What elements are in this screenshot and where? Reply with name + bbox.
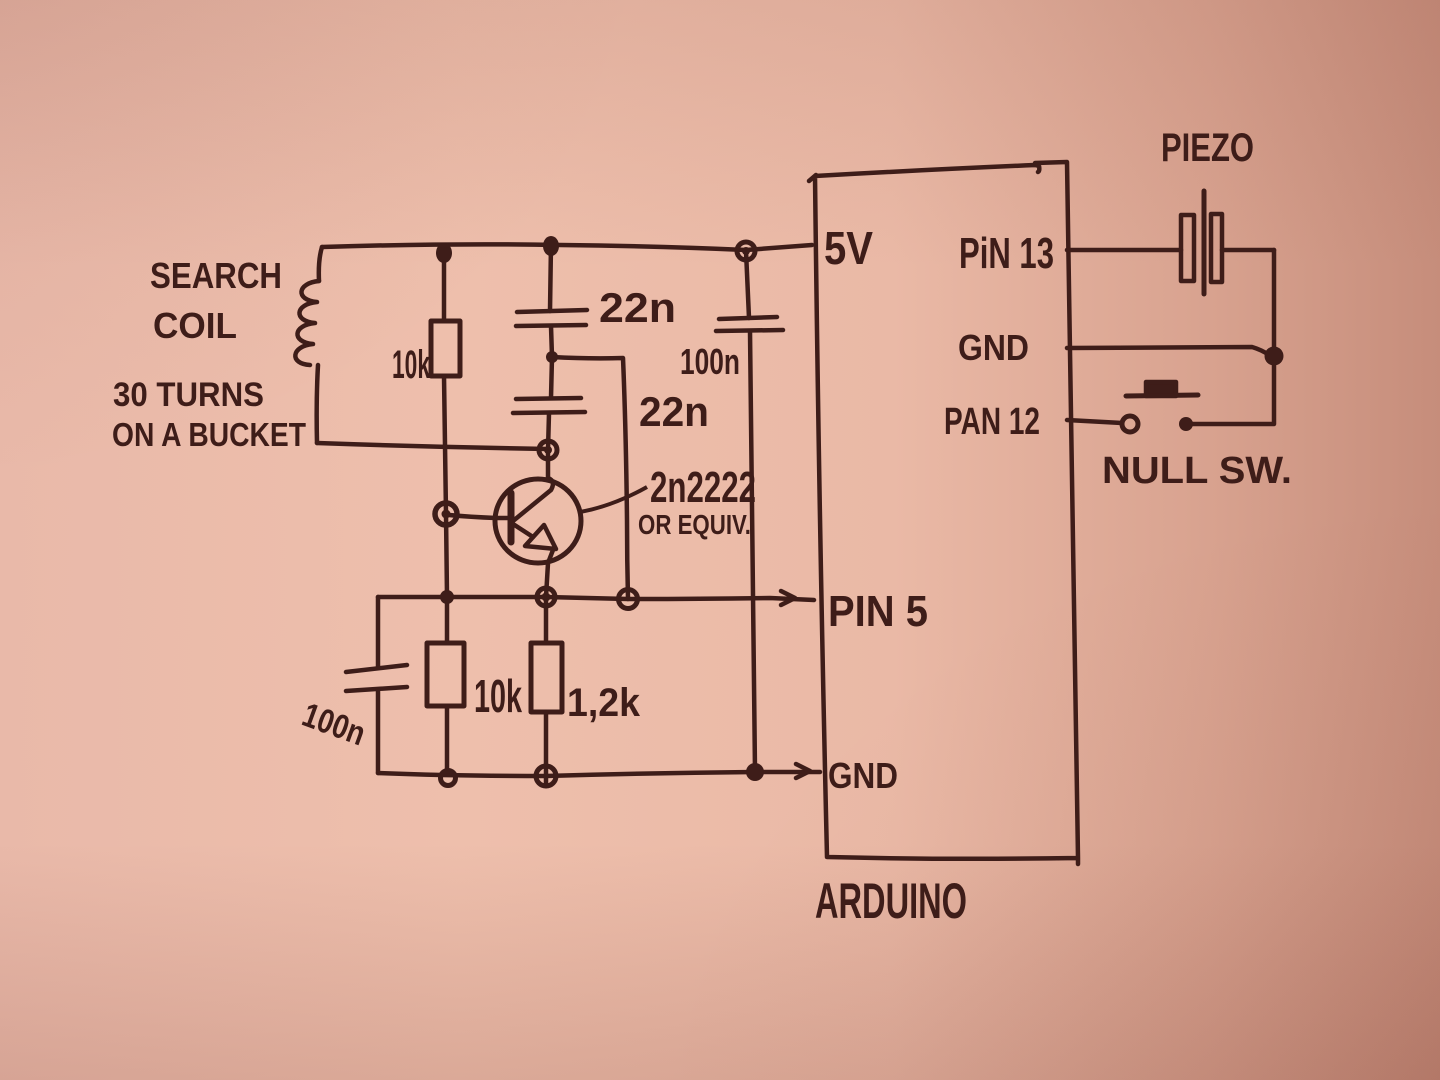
svg-text:22n: 22n xyxy=(639,388,709,435)
svg-text:100n: 100n xyxy=(680,341,740,382)
piezo center line xyxy=(1202,191,1207,294)
wire 5V rail to C3 xyxy=(746,251,749,318)
wire collector lead xyxy=(513,450,553,521)
arrowhead on gnd wire xyxy=(796,764,810,778)
wire bottom rail gnd xyxy=(378,772,820,776)
capacitor C1 22n xyxy=(516,310,587,326)
svg-text:30 TURNS: 30 TURNS xyxy=(113,376,264,414)
wire pan12 to switch xyxy=(1067,420,1122,423)
switch button xyxy=(1146,382,1176,396)
wire R3 to gnd rail xyxy=(544,712,549,786)
node pin5-R2 xyxy=(440,590,454,604)
wire piezo right lead xyxy=(1222,248,1274,253)
wire emitter lead down xyxy=(546,550,553,597)
node 5V-C1 xyxy=(543,236,559,256)
node R3-gnd circled xyxy=(536,766,556,786)
svg-text:NULL SW.: NULL SW. xyxy=(1102,450,1292,492)
resistor R3 1,2k xyxy=(531,643,562,712)
svg-text:PAN 12: PAN 12 xyxy=(944,401,1040,443)
svg-text:ON A BUCKET: ON A BUCKET xyxy=(112,416,306,453)
wire C3 down to gnd rail xyxy=(750,331,755,771)
resistor R2 10k xyxy=(427,643,464,706)
svg-text:2n2222: 2n2222 xyxy=(650,463,756,512)
wire pin13 to piezo xyxy=(1067,248,1181,253)
wire left drop to coil xyxy=(319,247,322,281)
inductor L1 search coil xyxy=(295,281,319,365)
node R2-gnd circled xyxy=(441,771,456,786)
wire coil bottom horizontal xyxy=(317,443,548,449)
svg-text:5V: 5V xyxy=(824,222,873,274)
node collector circled xyxy=(539,441,557,459)
wire top rail 5V xyxy=(322,244,812,250)
svg-text:10k: 10k xyxy=(474,670,522,722)
svg-text:PiN 13: PiN 13 xyxy=(959,229,1054,278)
node base circled xyxy=(435,503,457,525)
svg-text:GND: GND xyxy=(828,755,898,796)
wire 5V rail to 10k R1 xyxy=(442,247,447,321)
transistor base bar xyxy=(508,493,515,542)
resistor R1 10k xyxy=(431,321,460,376)
wire pin5 horizontal xyxy=(378,597,814,600)
wire emitter node to 1,2k R3 xyxy=(544,597,549,643)
svg-text:PIN 5: PIN 5 xyxy=(828,587,928,636)
wire below C4 xyxy=(376,691,381,773)
svg-text:1,2k: 1,2k xyxy=(567,681,641,725)
transistor Q1 2n2222 circle xyxy=(495,479,581,563)
arrowhead on pin5 wire xyxy=(781,591,795,605)
node gnd-piezo junction xyxy=(1265,347,1284,366)
wire R1 bottom to base node xyxy=(444,376,446,514)
wire gnd junction to switch xyxy=(1192,356,1274,424)
wire C1 to mid node xyxy=(551,326,552,357)
wire 5V rail to C1 xyxy=(550,244,551,311)
wire base lead xyxy=(449,515,512,518)
node 100n to gnd rail xyxy=(746,763,764,781)
capacitor C3 100n top xyxy=(716,317,783,331)
wire R2 to gnd rail xyxy=(445,706,450,773)
wire tee right and down to pin5 xyxy=(552,357,628,599)
svg-text:PIEZO: PIEZO xyxy=(1161,126,1254,170)
capacitor C2 22n xyxy=(513,398,585,413)
svg-text:22n: 22n xyxy=(599,284,676,331)
svg-text:10k: 10k xyxy=(392,343,430,387)
node C1-C2 mid xyxy=(546,351,558,363)
wire base node down to pin5 wire xyxy=(446,514,447,597)
wire arduino gnd to junction xyxy=(1067,347,1269,355)
wire piezo down right side xyxy=(1272,250,1277,356)
node tee-pin5 circled xyxy=(619,590,638,609)
transistor emitter arrow triangle xyxy=(525,525,556,549)
switch bar xyxy=(1126,395,1198,396)
node 5V-R1 xyxy=(436,243,452,263)
switch left contact xyxy=(1122,416,1138,432)
svg-text:COIL: COIL xyxy=(153,305,237,346)
svg-text:ARDUINO: ARDUINO xyxy=(815,873,967,929)
capacitor C4 100n bottom xyxy=(346,665,407,691)
wire pin5 dot to 10k R2 xyxy=(445,597,450,643)
wire coil bottom lead xyxy=(317,365,318,443)
wire C2 to collector node xyxy=(548,413,549,450)
piezo right plate xyxy=(1211,214,1222,282)
wire 100n bottom branch vertical xyxy=(376,597,381,668)
leader line to 2n2222 xyxy=(580,487,647,512)
piezo left plate xyxy=(1181,215,1194,281)
node 5V-C3 circled xyxy=(737,242,755,260)
transistor emitter stroke xyxy=(513,524,533,537)
node switch right contact xyxy=(1179,417,1193,431)
wire mid node to C2 xyxy=(551,357,552,398)
svg-text:OR EQUIV.: OR EQUIV. xyxy=(638,509,751,540)
svg-text:GND: GND xyxy=(958,327,1029,368)
arduino U1 box xyxy=(809,162,1078,864)
svg-text:SEARCH: SEARCH xyxy=(150,255,282,296)
node emitter-pin5 circled xyxy=(537,588,555,606)
